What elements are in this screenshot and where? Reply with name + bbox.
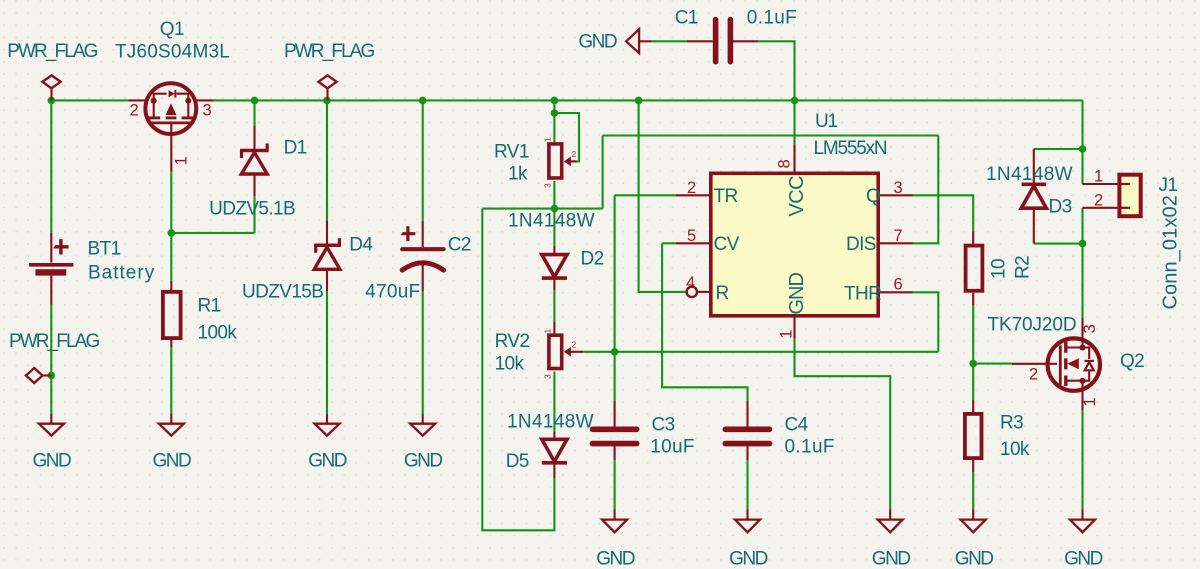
junction rail-VCC-C1 (791, 97, 799, 105)
diode D2 1N4148W (508, 211, 604, 291)
wire Q2 source to GND (1081, 410, 1083, 509)
svg-text:J1: J1 (1159, 175, 1178, 196)
junction D3 top (1079, 145, 1087, 153)
svg-text:BT1: BT1 (88, 239, 121, 260)
wire R3 bottom to GND (972, 472, 974, 509)
potentiometer RV2 10k (495, 322, 583, 379)
svg-text:1N4148W: 1N4148W (986, 164, 1073, 185)
power flag PWR_FLAG 3 (9, 331, 99, 383)
svg-text:7: 7 (894, 227, 903, 245)
diode D5 1N4148W (506, 412, 594, 479)
wire battery bottom to GND (50, 305, 52, 415)
wire rail to R pin (639, 100, 687, 292)
svg-text:5: 5 (687, 227, 696, 245)
svg-text:GND: GND (1064, 549, 1103, 569)
wire D4 top (326, 100, 328, 221)
svg-text:GND: GND (578, 32, 617, 53)
diode D4 UDZV15B zener (242, 221, 373, 303)
ground GND battery (33, 414, 72, 472)
diode D3 1N4148W (986, 149, 1073, 244)
wire battery top (50, 100, 52, 232)
svg-text:GND: GND (872, 549, 911, 569)
U1 pin 3 Q (866, 179, 913, 207)
svg-text:PWR_FLAG: PWR_FLAG (7, 41, 97, 62)
svg-text:TK70J20D: TK70J20D (988, 315, 1077, 336)
svg-text:D3: D3 (1049, 197, 1072, 218)
wire C2 top (422, 100, 424, 220)
wire DIS pin riser (913, 136, 939, 244)
wire C1 left to GND arrow (651, 40, 687, 42)
svg-text:GND: GND (955, 549, 994, 569)
svg-text:C3: C3 (652, 415, 675, 436)
U1 pin 1 GND (778, 273, 809, 339)
svg-text:DIS: DIS (846, 234, 876, 255)
svg-text:1k: 1k (508, 164, 528, 185)
svg-text:1: 1 (1094, 168, 1103, 186)
svg-text:3: 3 (543, 183, 553, 188)
wire left feedback loop (482, 209, 554, 531)
svg-text:3: 3 (894, 179, 903, 197)
ground GND R3 (955, 509, 994, 569)
svg-text:2: 2 (1029, 366, 1038, 384)
wire R2 bottom to gate node (972, 305, 974, 364)
op-amp U1 LM555xN body (711, 111, 887, 316)
svg-text:VCC: VCC (786, 176, 808, 217)
wire THR pin riser (913, 292, 939, 352)
svg-text:2: 2 (572, 149, 577, 159)
wire D1 bottom (253, 196, 255, 233)
wire CV to C4 (662, 243, 747, 400)
svg-text:2: 2 (572, 340, 577, 350)
wire Q1 gate down to R1 (170, 172, 172, 282)
svg-text:GND: GND (33, 451, 72, 472)
svg-text:470uF: 470uF (365, 282, 420, 303)
svg-text:3: 3 (543, 374, 553, 379)
junction rail-battery (48, 97, 56, 105)
svg-text:GND: GND (308, 451, 347, 472)
wire main VCC rail right segment (214, 99, 1083, 101)
svg-text:RV1: RV1 (494, 142, 529, 163)
transistor Q1 TJ60S04M3L (115, 19, 230, 172)
wire D2 to RV2 (553, 290, 555, 322)
potentiometer RV1 1k (494, 137, 577, 188)
resistor R3 10k (965, 400, 1030, 472)
svg-text:3: 3 (1081, 325, 1099, 334)
diode D1 UDZV5.1B zener (209, 126, 307, 220)
svg-text:R3: R3 (1000, 413, 1023, 434)
connector J1 Conn_01x02 (1083, 168, 1182, 310)
svg-text:D4: D4 (349, 235, 373, 256)
svg-text:6: 6 (894, 276, 903, 294)
U1 pin 6 THR (844, 276, 913, 305)
battery BT1 (29, 233, 155, 305)
junction node A (551, 205, 559, 213)
svg-text:C2: C2 (448, 235, 471, 256)
resistor R2 10 (966, 232, 1034, 306)
wire C3 bottom to GND (614, 460, 616, 509)
wire node A to DIS feedback (554, 208, 602, 210)
junction rail-Rpin (635, 97, 643, 105)
wire C2 bottom to GND (422, 291, 424, 414)
svg-text:10uF: 10uF (650, 437, 695, 458)
wire DIS feedback vertical (602, 136, 604, 209)
wire RV2 pin3 to D5 (553, 372, 555, 433)
svg-text:GND: GND (153, 451, 192, 472)
wire Q pin 3 to R2 (913, 195, 974, 231)
svg-text:RV2: RV2 (495, 331, 530, 352)
wire J1 pin2 down to Q2 drain (1081, 208, 1083, 318)
svg-text:THR: THR (844, 284, 881, 305)
wire RV2 wiper to THR (583, 351, 938, 353)
svg-text:UDZV15B: UDZV15B (242, 282, 323, 303)
svg-text:100k: 100k (198, 323, 238, 344)
wire DIS feedback horizontal (603, 134, 939, 136)
ground GND R1 (153, 414, 192, 472)
svg-text:1N4148W: 1N4148W (507, 412, 594, 433)
svg-text:LM555xN: LM555xN (814, 138, 887, 159)
wire gate node to R3 (972, 364, 974, 400)
junction rail-D1 (251, 97, 259, 105)
wire C1 to rail (758, 41, 794, 100)
svg-text:3: 3 (203, 102, 212, 120)
svg-text:U1: U1 (815, 111, 838, 132)
svg-text:R1: R1 (198, 296, 221, 317)
resistor R1 100k (163, 281, 238, 347)
junction RV1 wiper loop (551, 109, 559, 117)
junction battery-PWRFLAG3 (48, 372, 56, 380)
capacitor C2 470uF electrolytic (365, 221, 471, 303)
svg-text:UDZV5.1B: UDZV5.1B (209, 199, 295, 220)
svg-text:1: 1 (543, 329, 553, 334)
U1 pin 7 DIS (846, 227, 913, 255)
wire D4 bottom to GND (326, 291, 328, 414)
wire rail to RV1 (553, 100, 555, 143)
wire IC GND pin 1 to GND (795, 339, 891, 509)
svg-text:1: 1 (1081, 398, 1099, 407)
svg-text:2: 2 (687, 179, 696, 197)
svg-text:GND: GND (729, 549, 768, 569)
svg-text:Battery: Battery (88, 263, 155, 284)
ground GND C3 (596, 509, 635, 569)
svg-text:1: 1 (778, 330, 796, 339)
U1 pin 5 CV (676, 227, 740, 255)
wire TR vertical (614, 195, 616, 351)
svg-text:TR: TR (714, 186, 738, 207)
wire main VCC rail left segment (51, 99, 128, 101)
wire R1 bottom to GND (170, 347, 172, 414)
svg-text:R2: R2 (1013, 256, 1034, 279)
svg-text:1N4148W: 1N4148W (508, 211, 595, 232)
wire D1 to gate node (171, 232, 254, 234)
capacitor C3 10uF (593, 401, 695, 460)
wire D1 top (253, 100, 255, 126)
svg-text:1: 1 (173, 157, 191, 166)
ground GND D4 (308, 414, 347, 472)
U1 pin 8 VCC (776, 145, 809, 217)
ground GND C4 (729, 509, 768, 569)
ground GND U1 (872, 509, 911, 569)
svg-text:D2: D2 (581, 249, 604, 270)
wire C4 bottom to GND (746, 460, 748, 509)
svg-text:R: R (716, 283, 729, 304)
power flag PWR_FLAG 1 (7, 41, 97, 100)
junction TR-RV2-C3 (611, 348, 619, 356)
capacitor C1 0.1uF (675, 8, 797, 62)
svg-text:0.1uF: 0.1uF (747, 8, 797, 29)
svg-text:D1: D1 (284, 138, 307, 159)
transistor Q2 TK70J20D (988, 315, 1145, 411)
svg-text:10k: 10k (495, 354, 525, 375)
svg-text:GND: GND (404, 451, 443, 472)
svg-text:CV: CV (714, 234, 740, 255)
svg-text:Conn_01x02: Conn_01x02 (1160, 195, 1182, 309)
svg-text:10: 10 (989, 259, 1010, 279)
wire RV1 wiper loop (554, 113, 579, 161)
junction R2-R3-Q2gate (969, 360, 977, 368)
svg-text:PWR_FLAG: PWR_FLAG (284, 41, 374, 62)
capacitor C4 0.1uF (725, 401, 835, 460)
svg-text:Q2: Q2 (1120, 351, 1144, 372)
wire gate node to Q2 gate (973, 363, 1012, 365)
ground GND Q2 (1064, 509, 1103, 569)
U1 pin 2 TR (676, 179, 738, 207)
svg-text:2: 2 (130, 102, 139, 120)
wire RV1 pin3 down to node A (553, 181, 555, 246)
svg-text:GND: GND (596, 549, 635, 569)
svg-text:PWR_FLAG: PWR_FLAG (9, 331, 99, 352)
svg-text:8: 8 (776, 160, 794, 169)
wire rail drop to J1 pin 1 (1081, 100, 1083, 184)
svg-text:GND: GND (786, 273, 808, 315)
svg-text:2: 2 (1094, 192, 1103, 210)
wire VCC pin 8 (793, 100, 795, 144)
svg-text:TJ60S04M3L: TJ60S04M3L (115, 42, 230, 63)
svg-text:0.1uF: 0.1uF (785, 437, 835, 458)
svg-text:Q: Q (866, 186, 880, 207)
wire TR pin (615, 194, 676, 196)
wire C3 top (614, 352, 616, 401)
svg-text:D5: D5 (506, 451, 529, 472)
wire D3 bottom link (1034, 243, 1083, 245)
junction D3 bottom (1079, 240, 1087, 248)
svg-text:10k: 10k (1000, 439, 1030, 460)
junction rail-D4 (323, 97, 331, 105)
U1 pin 4 R inverted (686, 274, 729, 304)
junction rail-C2 (419, 97, 427, 105)
wire CV pin (662, 242, 676, 244)
ground GND C2 (404, 414, 443, 472)
svg-text:Q1: Q1 (160, 19, 184, 40)
junction gate-D1-R1 (168, 229, 176, 237)
wire node A to left loop (482, 208, 554, 210)
svg-text:C4: C4 (785, 415, 809, 436)
junction rail-RV1 (551, 97, 559, 105)
svg-text:4: 4 (686, 274, 695, 292)
svg-text:1: 1 (543, 137, 553, 142)
power flag PWR_FLAG 2 (284, 41, 374, 100)
svg-text:C1: C1 (675, 8, 698, 29)
ground GND left arrow for C1 (578, 29, 651, 53)
wire D3 top link (1034, 148, 1083, 150)
